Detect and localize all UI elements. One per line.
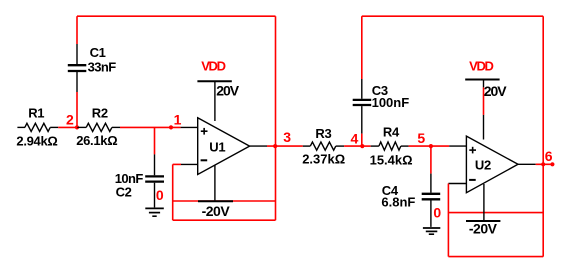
- resistor R1: [25, 123, 50, 131]
- wire U2 minus stub: [448, 183, 466, 185]
- svg-text:2.37kΩ: 2.37kΩ: [302, 151, 345, 166]
- svg-text:C1: C1: [90, 45, 106, 60]
- wire U2 output red: [536, 163, 553, 165]
- svg-text:3: 3: [283, 129, 291, 145]
- svg-text:-20V: -20V: [469, 220, 498, 236]
- node 5 junction: [429, 144, 433, 148]
- svg-text:U2: U2: [475, 157, 491, 172]
- U2 VDD pin lower black: [483, 115, 485, 140]
- U1 negative supply pin: [214, 165, 216, 200]
- svg-text:0: 0: [156, 187, 164, 203]
- U1 VDD power pin: [214, 82, 216, 121]
- svg-text:33nF: 33nF: [88, 60, 117, 75]
- wire C3 to node 4: [361, 134, 363, 147]
- svg-text:5: 5: [417, 130, 425, 146]
- VDD symbol for U2: [465, 79, 499, 81]
- svg-text:C2: C2: [116, 184, 132, 199]
- svg-text:-20V: -20V: [202, 203, 231, 219]
- wire feedback mid horizontal: [173, 200, 276, 202]
- wire node 2 up to C1: [76, 92, 78, 127]
- svg-text:6.8nF: 6.8nF: [381, 194, 415, 209]
- U1 minus symbol: [201, 159, 208, 161]
- wire U2 feedback mid horizontal: [448, 212, 543, 214]
- wire top rail stage 2: [362, 15, 543, 17]
- capacitor C3: [361, 79, 363, 99]
- -20V bar U1: [198, 200, 233, 202]
- capacitor C2: [154, 154, 156, 175]
- svg-text:U1: U1: [209, 140, 225, 155]
- ground for C2: [145, 207, 164, 209]
- wire feedback left vertical: [172, 164, 174, 220]
- U2 VDD pin upper black: [483, 81, 485, 88]
- resistor R2: [86, 123, 112, 131]
- svg-text:R2: R2: [92, 106, 108, 121]
- -20V bar U2: [466, 220, 500, 222]
- wire C1 up to top rail: [76, 16, 78, 44]
- svg-text:15.4kΩ: 15.4kΩ: [370, 153, 413, 168]
- wire R1 to node 2: [58, 126, 77, 128]
- op-amp U1 body: [198, 118, 250, 175]
- svg-text:4: 4: [351, 130, 359, 146]
- svg-text:0: 0: [433, 205, 441, 221]
- capacitor C4: [430, 174, 432, 193]
- wire node 5 down to C4: [430, 146, 432, 174]
- wire right vertical rail to output: [542, 16, 544, 256]
- wire rail down to node 3: [275, 16, 277, 220]
- wire R2 to node 1: [120, 126, 181, 128]
- wire node 5 to U2 plus input: [449, 145, 466, 147]
- wire node 1 down to C2: [154, 127, 156, 154]
- U1 plus symbol: [201, 130, 208, 132]
- capacitor C1: [76, 72, 78, 92]
- svg-text:2: 2: [66, 112, 74, 128]
- wire R3 to node 4: [344, 145, 362, 147]
- wire input lead to R1: [17, 126, 25, 128]
- svg-text:100nF: 100nF: [372, 95, 410, 110]
- U2 minus symbol: [469, 179, 476, 181]
- resistor R4: [379, 142, 401, 150]
- node 3 junction: [273, 144, 277, 148]
- wire R4 to node 5: [409, 145, 450, 147]
- svg-text:2.94kΩ: 2.94kΩ: [16, 134, 57, 149]
- wire U1 output black: [250, 145, 267, 147]
- svg-text:1: 1: [174, 112, 182, 128]
- svg-text:R1: R1: [28, 106, 44, 121]
- U2 plus symbol: [469, 149, 476, 151]
- wire U2 feedback left vertical: [447, 184, 449, 257]
- wire U1 output red to R3: [267, 145, 303, 147]
- node 4 junction: [360, 144, 364, 148]
- svg-text:20V: 20V: [216, 83, 240, 99]
- wire node 1 to U1 plus input: [181, 126, 198, 128]
- VDD symbol for U1: [197, 80, 231, 82]
- wire U1 minus stub red: [173, 163, 181, 165]
- wire node 4 to R4: [362, 145, 370, 147]
- op-amp U2 body: [466, 136, 518, 193]
- wire VDD to U2 red: [483, 87, 485, 115]
- svg-text:20V: 20V: [484, 83, 508, 99]
- resistor R3: [310, 142, 336, 150]
- wire rail down to C3: [361, 16, 363, 79]
- node 2 junction: [75, 125, 79, 129]
- wire U2 feedback bottom: [448, 256, 543, 258]
- node 1 junction: [169, 125, 173, 129]
- node 6 terminal dot: [550, 162, 554, 166]
- svg-text:26.1kΩ: 26.1kΩ: [76, 133, 117, 148]
- wire U1 minus stub black: [181, 163, 198, 165]
- wire U2 output black: [518, 163, 536, 165]
- svg-text:6: 6: [545, 148, 553, 164]
- svg-text:VDD: VDD: [469, 58, 493, 73]
- U2 negative supply pin: [483, 184, 485, 220]
- svg-text:R3: R3: [315, 126, 331, 141]
- wire node 2 to R2: [77, 126, 86, 128]
- svg-text:VDD: VDD: [201, 58, 225, 73]
- wire top rail stage 1: [77, 15, 276, 17]
- wire feedback bottom: [173, 219, 276, 221]
- node 6 junction: [541, 162, 545, 166]
- svg-text:R4: R4: [383, 125, 400, 140]
- ground for C4: [423, 227, 440, 229]
